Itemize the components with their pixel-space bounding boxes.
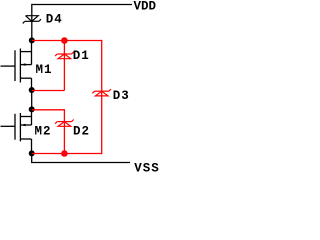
M1 bulk stub: [20, 64, 31, 66]
red junction dot on top wire: [61, 37, 68, 44]
M1 gate bar: [14, 50, 16, 81]
diode D4 (zener, pointing down: open triangle above, cathode bar below): [23, 16, 41, 24]
wire: red top horizontal (node A to D3 branch): [32, 40, 102, 42]
diode D2 (red, pointing up: zener cathode bar on top, open triangle below): [55, 120, 74, 127]
M2 gate lead: [1, 125, 16, 127]
M2 source stub: [20, 138, 31, 140]
wire: node D down to VSS rail: [31, 153, 33, 162]
svg-text:VSS: VSS: [134, 162, 160, 173]
M1 source stub: [20, 77, 31, 79]
red junction dot on bottom wire: [61, 150, 68, 157]
node B junction dot: [29, 87, 35, 93]
M1 drain stub: [20, 51, 31, 53]
svg-text:D4: D4: [46, 13, 63, 27]
svg-text:D2: D2: [73, 125, 90, 139]
wire: red bottom horizontal (node D to D3 branch): [32, 153, 102, 155]
svg-text:D1: D1: [73, 49, 90, 63]
node C junction dot: [29, 106, 35, 112]
M1 source vertical to node B: [31, 78, 33, 90]
M1 bulk arrow: [21, 63, 26, 66]
svg-text:M1: M1: [36, 63, 53, 77]
wire: top-left vertical branch through D4 down to node A: [31, 4, 33, 41]
wire: D3 branch vertical: [101, 40, 103, 154]
M1 drain/bulk vertical to node A: [31, 40, 33, 64]
wire: red node C horizontal: [32, 109, 65, 111]
M2 bulk arrow: [21, 124, 26, 127]
svg-text:VDD: VDD: [134, 0, 157, 14]
wire: red node B horizontal: [32, 90, 65, 92]
node A junction dot: [29, 37, 35, 43]
transistor M2 (4-terminal MOSFET): [1, 109, 32, 153]
M1 channel bar: [19, 49, 21, 83]
wire: D2 branch vertical: [63, 109, 65, 153]
svg-text:M2: M2: [35, 125, 52, 139]
M2 channel bar: [19, 113, 21, 141]
diode D3 (red, pointing up: zener cathode bar on top, open triangle below): [92, 89, 111, 96]
node D junction dot: [29, 150, 35, 156]
svg-text:D3: D3: [113, 89, 130, 103]
wire: node B to node C vertical: [31, 90, 33, 109]
wire: VDD top rail: [32, 4, 132, 6]
M2 drain stub: [20, 116, 31, 118]
transistor M1 (4-terminal MOSFET): [1, 40, 32, 90]
M1 gate lead: [1, 65, 16, 67]
M2 drain/bulk vertical to node C: [31, 109, 33, 125]
M2 bulk stub: [20, 124, 31, 126]
wire: VSS bottom rail: [31, 162, 130, 164]
M2 source vertical to node D: [31, 139, 33, 153]
diode D1 (red, pointing up: zener cathode bar on top, open triangle below): [55, 52, 74, 59]
wire: D1 branch vertical: [63, 41, 65, 91]
M2 gate bar: [14, 114, 16, 140]
